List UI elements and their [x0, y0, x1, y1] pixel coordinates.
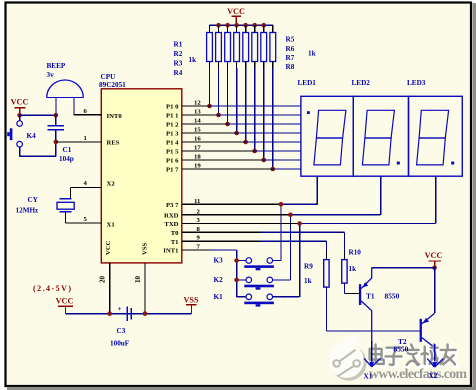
- wire TXD (pin 3) net: CPU to LED3 common and K1: [182, 223, 300, 225]
- resistor R1: [207, 25, 213, 68]
- svg-text:T0: T0: [171, 230, 179, 237]
- wire K1 right to TXD drop: [273, 296, 300, 298]
- wire T2 collector (over watermark): [434, 344, 436, 362]
- svg-text:X1: X1: [364, 373, 373, 381]
- junction on VCC bus (R6): [252, 23, 257, 28]
- svg-text:RXD: RXD: [164, 212, 179, 219]
- svg-text:10: 10: [134, 276, 142, 284]
- junction VCC/K4: [17, 113, 22, 118]
- svg-text:104p: 104p: [59, 155, 74, 163]
- svg-text:X2: X2: [107, 181, 116, 188]
- svg-text:1k: 1k: [308, 50, 316, 58]
- resistor R5: [243, 25, 249, 68]
- junction R7/P1.6: [261, 158, 266, 163]
- svg-text:P1 4: P1 4: [166, 140, 179, 147]
- svg-text:P1 3: P1 3: [166, 131, 179, 138]
- resistor R8: [270, 25, 276, 68]
- junction R2/P1.1: [216, 113, 221, 118]
- svg-text:P3 7: P3 7: [166, 202, 179, 209]
- svg-text:3v: 3v: [47, 71, 55, 79]
- svg-text:K2: K2: [214, 276, 224, 284]
- wire P1.7 from CPU pin 19 to LED1: [182, 168, 273, 170]
- transistor T2 8550: [420, 313, 435, 362]
- junction on VCC bus (R3): [225, 23, 230, 28]
- wire: R1 to P1.0 line: [209, 68, 211, 106]
- svg-text:R2: R2: [174, 50, 183, 58]
- svg-text:20: 20: [99, 276, 107, 284]
- svg-text:R9: R9: [304, 263, 313, 271]
- svg-text:R1: R1: [174, 41, 183, 49]
- wire: R3 to P1.2 line: [227, 68, 229, 124]
- wire: R5 to P1.4 line: [245, 68, 247, 142]
- buzzer BEEP 3v: [47, 80, 84, 115]
- resistor R10: [342, 260, 347, 284]
- svg-text:T1: T1: [171, 239, 179, 246]
- switch K2: [244, 277, 274, 290]
- svg-text:P1 6: P1 6: [166, 158, 179, 165]
- svg-text:VSS: VSS: [142, 242, 149, 255]
- resistor R9: [324, 260, 329, 288]
- svg-text:R5: R5: [286, 36, 295, 44]
- wire RXD (pin 2) net: CPU to LED2 common and K2: [182, 214, 291, 216]
- switch K3: [244, 258, 274, 271]
- display LED1: [301, 96, 353, 176]
- wire P1.5 from CPU pin 17 to LED1: [182, 150, 255, 152]
- display LED3: [409, 96, 463, 176]
- resistor R3: [225, 25, 231, 68]
- svg-text:8550: 8550: [394, 345, 409, 354]
- svg-text:P1 0: P1 0: [166, 104, 179, 111]
- wire P1.4 from CPU pin 16 to LED1: [182, 141, 246, 143]
- svg-text:VCC: VCC: [425, 251, 443, 260]
- junction R3/P1.2: [225, 122, 230, 127]
- svg-text:+: +: [118, 305, 122, 313]
- wire X1 (pin 5): [65, 212, 67, 223]
- wire K2 right to RXD drop: [273, 279, 291, 281]
- op: CPU U1 89C2051: [101, 89, 182, 263]
- svg-text:R4: R4: [174, 69, 183, 77]
- junction on VCC bus (R5): [243, 23, 248, 28]
- power symbol VCC (left): [11, 98, 29, 116]
- power symbol VCC (bottom left): [56, 297, 74, 314]
- wire X2 (pin 4): [71, 186, 102, 188]
- svg-text:CY: CY: [28, 196, 39, 204]
- svg-text:BEEP: BEEP: [47, 62, 66, 70]
- node X1 (output arrow): [364, 358, 381, 367]
- switch K1: [244, 294, 274, 307]
- svg-text:INT1: INT1: [163, 247, 178, 254]
- power symbol VSS: [183, 296, 198, 314]
- svg-text:K4: K4: [27, 132, 37, 140]
- svg-text:T1: T1: [366, 291, 375, 300]
- watermark www.elecfans.com: [369, 366, 469, 382]
- svg-text:89C2051: 89C2051: [99, 81, 126, 89]
- resistor R4: [234, 25, 240, 68]
- wire: R7 to P1.6 line: [263, 68, 265, 160]
- svg-text:C3: C3: [117, 327, 126, 335]
- svg-text:R8: R8: [286, 63, 295, 71]
- svg-text:VCC: VCC: [56, 297, 74, 306]
- wire INT0 (pin 6) to beeper: [74, 114, 101, 116]
- svg-text:VSS: VSS: [183, 296, 198, 305]
- wire: R4 to P1.3 line: [236, 68, 238, 133]
- junction P3.7/K3: [279, 202, 284, 207]
- capacitor C3 100uF: [118, 305, 132, 321]
- wire R10 bottom to T1 base: [343, 283, 345, 293]
- svg-text:(2.4-5V): (2.4-5V): [33, 284, 71, 293]
- svg-text:VCC: VCC: [11, 98, 29, 107]
- svg-text:1k: 1k: [304, 277, 312, 285]
- svg-text:C1: C1: [63, 146, 72, 154]
- svg-text:RES: RES: [107, 140, 120, 147]
- wire: top VCC bus: [210, 24, 273, 26]
- svg-text:P1 1: P1 1: [166, 113, 178, 120]
- svg-text:K3: K3: [214, 257, 224, 265]
- svg-text:VCC: VCC: [105, 240, 112, 255]
- svg-text:P1 2: P1 2: [166, 122, 179, 129]
- display LED2: [353, 96, 408, 176]
- wire P3.7 (pin 11) net: CPU to LED1 common and K3: [182, 203, 281, 205]
- wire P1.2 from CPU pin 14 to LED1: [182, 123, 228, 125]
- wire T1 (pin 9) to R9: [182, 240, 260, 242]
- wire R9 bottom to T2 base: [325, 287, 327, 331]
- junction R6/P1.5: [252, 149, 257, 154]
- wire pin 10 (VSS): [144, 263, 146, 314]
- power symbol VCC (top, resistor network): [227, 7, 245, 25]
- resistor R6: [252, 25, 258, 68]
- wire pin 20 (VCC): [109, 263, 111, 314]
- svg-text:CPU: CPU: [101, 73, 117, 81]
- junction beeper leg: [54, 113, 59, 118]
- svg-text:www.elecfans.com: www.elecfans.com: [369, 366, 468, 381]
- junction bus/K2: [234, 278, 239, 283]
- svg-text:1: 1: [84, 135, 87, 142]
- wire: R8 to P1.7 line: [272, 68, 274, 169]
- power symbol VCC (right): [425, 251, 443, 268]
- svg-text:P1 7: P1 7: [166, 167, 179, 174]
- svg-text:100uF: 100uF: [110, 339, 130, 347]
- svg-text:8550: 8550: [385, 291, 400, 300]
- svg-text:LED2: LED2: [352, 79, 371, 87]
- capacitor C1: [48, 115, 65, 142]
- svg-text:TXD: TXD: [164, 221, 178, 228]
- resistor R2: [216, 25, 222, 68]
- svg-text:X2: X2: [429, 372, 438, 380]
- switch K4: [7, 115, 56, 156]
- svg-text:VCC: VCC: [227, 7, 245, 16]
- junction pin20/rail: [107, 311, 112, 316]
- wire INT1 (pin 7) key bus: [182, 249, 209, 251]
- junction TXD/K1: [297, 221, 302, 226]
- svg-text:1k: 1k: [349, 265, 357, 273]
- junction R8/P1.7: [270, 167, 275, 172]
- svg-text:X1: X1: [107, 221, 115, 228]
- svg-text:R3: R3: [174, 60, 183, 68]
- wire bottom power rail: [66, 313, 192, 315]
- junction C1/RES: [54, 140, 59, 145]
- wire RES (pin 1): [56, 141, 102, 143]
- svg-text:R6: R6: [286, 45, 295, 53]
- junction R1/P1.0: [207, 104, 212, 109]
- svg-text:K1: K1: [214, 293, 224, 301]
- transistor T1 8550: [359, 268, 372, 362]
- junction pin10/rail: [143, 311, 148, 316]
- svg-text:R10: R10: [349, 249, 362, 257]
- wire P1.0 from CPU pin 12 to LED1: [182, 105, 210, 107]
- wire: R6 to P1.5 line: [254, 68, 256, 151]
- wire P1.3 from CPU pin 15 to LED1: [182, 132, 237, 134]
- junction on VCC bus (R2): [216, 23, 221, 28]
- watermark logo (elecfans): [329, 335, 367, 380]
- junction RXD/K2: [288, 213, 293, 218]
- junction on VCC bus (R4): [234, 23, 239, 28]
- svg-text:LED3: LED3: [407, 79, 426, 87]
- junction R4/P1.3: [234, 131, 239, 136]
- junction R5/P1.4: [243, 140, 248, 145]
- wire VCC to beeper/C1 node: [20, 114, 56, 116]
- svg-text:R7: R7: [286, 54, 295, 62]
- junction bus/K3: [234, 258, 239, 263]
- crystal CY 12MHz: [57, 199, 74, 212]
- wire P1.1 from CPU pin 13 to LED1: [182, 114, 219, 116]
- svg-text:P1 5: P1 5: [166, 149, 179, 156]
- junction VCC/T1/T2: [432, 265, 437, 270]
- wire T0 (pin 8) to R10: [182, 231, 260, 233]
- watermark chinese characters: [370, 345, 457, 367]
- junction on VCC bus (R7): [261, 23, 266, 28]
- wire T1 collector (over watermark): [371, 341, 373, 361]
- wire VCC to T1 emitter: [372, 267, 435, 269]
- wire VCC down to T2 emitter: [434, 268, 436, 314]
- resistor R7: [261, 25, 267, 68]
- wire P1.6 from CPU pin 18 to LED1: [182, 159, 264, 161]
- node X2 (output arrow): [427, 359, 443, 368]
- svg-text:LED1: LED1: [298, 79, 317, 87]
- svg-text:1k: 1k: [189, 56, 197, 64]
- svg-text:12MHz: 12MHz: [16, 206, 40, 214]
- wire: R2 to P1.1 line: [218, 68, 220, 115]
- svg-text:INT0: INT0: [107, 113, 123, 120]
